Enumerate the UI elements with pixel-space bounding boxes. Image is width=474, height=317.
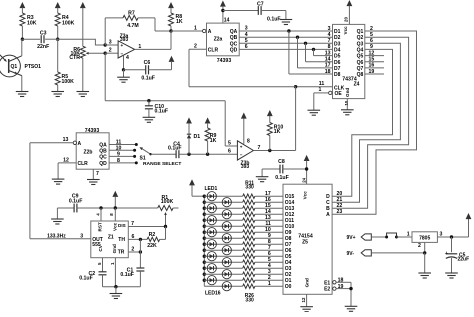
wire Z2a CLR	[189, 48, 207, 50]
74374 pin10 ground	[346, 99, 348, 110]
power VCC arrow (R6 top)	[80, 2, 86, 8]
svg-text:RANGE SELECT: RANGE SELECT	[143, 161, 181, 167]
svg-text:A: A	[208, 29, 212, 35]
svg-text:0.1uF: 0.1uF	[79, 276, 93, 282]
wire 555 OUT 133.3Hz	[30, 238, 91, 240]
74154 E1 bubble	[333, 281, 336, 284]
svg-text:S1: S1	[140, 156, 146, 162]
LED4	[203, 213, 206, 216]
LED13	[203, 267, 206, 270]
svg-text:Gnd: Gnd	[345, 88, 350, 97]
svg-text:OE: OE	[335, 91, 343, 97]
node C5 junction	[450, 235, 453, 238]
S1 contact 3	[133, 155, 136, 158]
wire 555 TH	[128, 238, 147, 240]
resistor R24 330	[243, 272, 255, 276]
node D4 tap	[312, 48, 315, 51]
svg-text:Q7: Q7	[357, 66, 364, 72]
node rail/ground	[114, 285, 117, 288]
svg-text:DIS: DIS	[118, 223, 126, 228]
svg-text:1: 1	[319, 87, 322, 93]
resistor R20 330	[243, 248, 255, 252]
svg-text:PTSO1: PTSO1	[25, 64, 42, 70]
resistor R17 330	[243, 230, 255, 234]
svg-text:3: 3	[109, 40, 112, 46]
node D3 tap	[304, 42, 307, 45]
power VCC arrow (Z2a pin14)	[220, 1, 226, 7]
svg-text:QC: QC	[99, 155, 107, 161]
svg-text:100K: 100K	[62, 79, 75, 85]
node DIS junction	[164, 225, 167, 228]
svg-text:O0: O0	[285, 284, 292, 290]
svg-text:Q1: Q1	[10, 64, 17, 70]
wire 7805 out	[437, 236, 468, 238]
op-amp Z3b 393	[237, 141, 253, 160]
svg-text:3: 3	[80, 233, 83, 239]
wire 555 pin8	[114, 208, 116, 221]
wire D4 to D5	[313, 49, 315, 55]
wire Z2b QD to S1 contact	[109, 162, 136, 164]
wire Z2a QA to 74374 D1	[239, 30, 332, 32]
node C8/VCC junction	[305, 167, 308, 170]
svg-text:22uF: 22uF	[458, 257, 470, 263]
svg-text:10: 10	[344, 100, 349, 105]
switch S2	[385, 236, 388, 239]
svg-text:Z5: Z5	[302, 240, 308, 246]
node R9 junction	[206, 153, 209, 156]
node R3/C3/Q1 junction	[21, 38, 24, 41]
wire Z3a output	[135, 48, 171, 50]
wire Z2b CLR to ground	[58, 162, 76, 164]
svg-text:D6: D6	[334, 60, 341, 66]
svg-text:24: 24	[301, 177, 306, 182]
svg-text:2: 2	[370, 26, 373, 32]
svg-text:19: 19	[338, 284, 344, 290]
wire E1/E2 to ground	[336, 281, 351, 283]
node D1 junction	[187, 153, 190, 156]
svg-text:QD: QD	[230, 47, 238, 53]
switch S1 wiper	[141, 148, 151, 154]
wire 74374 Q1 to 74154 A	[332, 31, 416, 214]
node pin8 junction	[114, 206, 117, 209]
node R4/C3/R5 junction	[56, 38, 59, 41]
74154 E2 bubble	[333, 287, 336, 290]
node Z3a pin3	[104, 43, 107, 46]
wire to Z2a A input	[171, 30, 203, 32]
LED3	[203, 207, 206, 210]
wire 555 CV	[102, 258, 104, 272]
svg-text:0.1uF: 0.1uF	[69, 199, 83, 205]
svg-text:330: 330	[245, 185, 254, 191]
svg-text:D5: D5	[334, 54, 341, 60]
svg-text:20: 20	[343, 17, 348, 22]
node D1 tap	[287, 29, 290, 32]
svg-text:7: 7	[328, 38, 331, 44]
resistor R22 330	[243, 260, 255, 264]
svg-text:Vcc: Vcc	[343, 26, 348, 35]
svg-text:8: 8	[247, 139, 250, 145]
ground (C10)	[143, 116, 156, 118]
wire 7805 pin2	[424, 242, 426, 253]
svg-text:D2: D2	[334, 35, 341, 41]
resistor R10 1K	[267, 123, 272, 136]
resistor R12 330	[243, 200, 255, 204]
svg-text:10K: 10K	[27, 20, 37, 26]
regulator 7805	[412, 232, 437, 243]
svg-text:0.1uF: 0.1uF	[141, 75, 155, 81]
svg-text:Gnd: Gnd	[112, 244, 117, 253]
wire 555 pin4	[100, 208, 102, 221]
power VCC arrow (supply out)	[466, 213, 472, 219]
svg-text:Z2b: Z2b	[84, 150, 93, 156]
ground (C7)	[285, 11, 287, 20]
svg-text:5: 5	[228, 141, 231, 147]
node C10 junction	[147, 99, 150, 102]
wire 74374 Q6 stub	[365, 61, 384, 63]
svg-text:1: 1	[268, 281, 271, 287]
svg-text:Z2a: Z2a	[214, 37, 223, 43]
wire 74374 Q3 to 74154 C	[332, 43, 400, 202]
capacitor C10 0.1uF	[148, 101, 150, 106]
svg-text:9: 9	[117, 152, 120, 158]
svg-text:D7: D7	[334, 66, 341, 72]
svg-text:9V+: 9V+	[347, 235, 356, 241]
svg-text:7: 7	[131, 221, 134, 227]
LED10	[203, 249, 206, 252]
wire pin2 stub	[105, 52, 118, 54]
resistor R4 100K	[55, 13, 60, 26]
capacitor C1 0.1uF	[136, 267, 144, 269]
capacitor C9 0.1uF	[57, 207, 74, 209]
Z2b pin7 ground	[92, 169, 94, 179]
svg-text:Z1: Z1	[108, 234, 114, 240]
svg-text:6: 6	[245, 44, 248, 50]
svg-text:6: 6	[228, 149, 231, 155]
ground (Q1)	[16, 91, 29, 93]
wire Z2b QB to S1 contact	[109, 149, 135, 151]
wire Q1 collector	[21, 39, 23, 56]
ground (C8)	[261, 169, 263, 177]
ground (Z2b CLR)	[52, 178, 65, 180]
svg-text:393: 393	[120, 37, 129, 43]
node pin4 junction	[99, 206, 102, 209]
capacitor C7 0.1uF	[223, 10, 258, 12]
resistor R16 330	[243, 224, 255, 228]
ground (Z3a pin4)	[123, 70, 125, 77]
ground (555)	[115, 287, 117, 294]
svg-text:22nF: 22nF	[37, 44, 49, 50]
timer Z1 555	[91, 221, 129, 258]
resistor R21 330	[243, 254, 255, 258]
svg-text:Q3: Q3	[357, 41, 364, 47]
resistor R11 330	[243, 194, 255, 198]
svg-text:D1: D1	[334, 29, 341, 35]
svg-text:C8: C8	[278, 159, 285, 165]
wire 9V- rail	[371, 252, 424, 254]
wire R4 to node	[57, 26, 59, 39]
svg-text:16: 16	[369, 63, 375, 69]
wire D1 to D8	[288, 31, 290, 74]
svg-text:12: 12	[301, 297, 306, 302]
svg-text:Q8: Q8	[357, 72, 364, 78]
power VCC arrow (74374 pin20)	[347, 0, 353, 6]
LED15	[203, 279, 206, 282]
wire 74374 Q4 to 74154 D	[332, 49, 392, 196]
wire R3 to node	[21, 26, 23, 39]
node D2 tap	[296, 36, 299, 39]
LED14	[203, 273, 206, 276]
power VCC arrow (74154 pin24)	[304, 155, 310, 161]
svg-text:10: 10	[116, 146, 122, 152]
svg-text:D1: D1	[194, 134, 201, 140]
svg-text:D3: D3	[334, 41, 341, 47]
wire bottom rail	[103, 286, 141, 288]
wire Z3b output	[253, 150, 295, 152]
svg-text:1: 1	[138, 44, 141, 50]
svg-text:LED16: LED16	[205, 291, 221, 297]
svg-text:2: 2	[109, 48, 112, 54]
wire D2 to D7	[297, 37, 299, 68]
svg-text:+: +	[240, 144, 243, 149]
wire D3 to D6	[305, 43, 307, 62]
resistor R9 1K	[205, 128, 210, 141]
svg-text:9V-: 9V-	[347, 251, 355, 257]
svg-text:A: A	[326, 212, 330, 218]
LED11	[203, 255, 206, 258]
svg-text:CV: CV	[98, 244, 103, 251]
node CLK junction	[294, 85, 297, 88]
svg-text:0.1uF: 0.1uF	[267, 17, 281, 23]
node 9V- junction	[423, 251, 426, 254]
svg-text:Vcc: Vcc	[303, 191, 308, 200]
node TH junction	[139, 238, 142, 241]
svg-text:QA: QA	[230, 29, 238, 35]
power VCC arrow (555)	[112, 191, 118, 197]
node pin4/C6	[122, 68, 125, 71]
ground (OE)	[308, 109, 321, 111]
svg-text:0.1uF: 0.1uF	[120, 272, 134, 278]
resistor R7 4.7M feedback	[104, 18, 106, 45]
svg-text:C6: C6	[144, 60, 151, 66]
svg-text:0.1uF: 0.1uF	[168, 146, 182, 152]
resistor R19 330	[243, 242, 255, 246]
LED8	[203, 237, 206, 240]
wire Z3a pin4 to ground	[123, 55, 125, 69]
S1 contact 1	[135, 143, 138, 146]
svg-text:7: 7	[257, 145, 260, 151]
svg-text:330: 330	[245, 297, 254, 303]
svg-text:CLR: CLR	[208, 47, 219, 53]
wire Z2a QC to 74374 D3	[239, 42, 332, 44]
wire 74374 Q7 stub	[365, 67, 384, 69]
svg-text:100K: 100K	[161, 199, 174, 205]
svg-text:2: 2	[194, 44, 197, 50]
connector 9V-	[361, 250, 371, 256]
LED6	[203, 225, 206, 228]
svg-text:8: 8	[328, 44, 331, 50]
diode D1	[186, 117, 192, 123]
resistor R8 1K	[169, 13, 174, 26]
svg-text:14: 14	[325, 57, 331, 63]
R1 wiper	[165, 214, 167, 227]
wire 74374 Q8 stub	[365, 73, 384, 75]
svg-text:6: 6	[132, 234, 135, 240]
capacitor C2 0.1uF	[99, 271, 107, 273]
svg-text:2: 2	[131, 246, 134, 252]
decoder Z5 74154	[283, 184, 332, 294]
Z2a pin14 VCC	[222, 11, 224, 24]
svg-text:2: 2	[418, 243, 421, 249]
svg-text:LED1: LED1	[205, 186, 218, 192]
wire 555 OUT to Z2b A	[30, 142, 73, 144]
svg-text:74393: 74393	[217, 58, 232, 64]
resistor R26 330	[243, 284, 255, 288]
node Z3a pin2	[104, 52, 107, 55]
wire R6 to ground	[82, 58, 84, 91]
LED2	[203, 201, 206, 204]
LED16	[204, 285, 242, 287]
resistor R13 330	[243, 206, 255, 210]
svg-text:RST: RST	[98, 222, 103, 231]
svg-text:CLR: CLR	[78, 161, 89, 167]
svg-text:TH: TH	[118, 237, 125, 243]
wire LED supply bus	[203, 196, 205, 286]
node E2 junction	[349, 287, 352, 290]
R6 wiper	[87, 52, 105, 54]
wire CLK to Z3b out	[295, 87, 297, 151]
wire threshold node	[104, 53, 106, 100]
capacitor C8 0.1uF	[262, 168, 280, 170]
svg-text:100K: 100K	[62, 20, 75, 26]
svg-text:Q2: Q2	[357, 35, 364, 41]
resistor R2 22K	[147, 237, 160, 241]
wire 74374 Q5 stub	[365, 55, 384, 57]
Z2b A bubble	[73, 141, 76, 144]
wire 555 TR	[128, 251, 140, 253]
svg-text:Q1: Q1	[357, 29, 364, 35]
capacitor C6 0.1uF	[124, 69, 146, 71]
potentiometer R6 10K CTR	[80, 46, 85, 58]
wire CLK to Z2a CLR	[189, 86, 296, 88]
svg-text:19: 19	[369, 69, 375, 75]
svg-text:18: 18	[325, 69, 331, 75]
svg-text:QB: QB	[230, 35, 238, 41]
svg-text:E1: E1	[324, 280, 330, 286]
svg-text:Z4: Z4	[354, 82, 360, 88]
svg-text:12: 12	[369, 50, 375, 56]
S1 contact 4	[135, 161, 138, 164]
phototransistor Q1 PTSO1	[0, 55, 20, 77]
counter Z2a 74393	[207, 23, 240, 56]
Z2a A input bubble	[203, 29, 206, 32]
svg-text:6: 6	[370, 38, 373, 44]
power VCC arrow (R9)	[205, 117, 211, 123]
capacitor C4 0.1uF	[175, 150, 177, 158]
svg-text:+: +	[121, 43, 124, 48]
svg-text:3: 3	[440, 231, 443, 237]
wire to ground	[424, 253, 426, 273]
svg-text:CTR: CTR	[69, 55, 80, 61]
wire 74374 Q2 to 74154 B	[332, 37, 409, 208]
svg-text:3: 3	[245, 26, 248, 32]
svg-text:1K: 1K	[176, 19, 183, 25]
wire S1 to C4	[151, 153, 177, 155]
power VCC arrow (R4 top)	[55, 2, 61, 8]
wire Z2b QA to S1 contact	[109, 144, 136, 146]
svg-text:0.1uF: 0.1uF	[275, 175, 289, 181]
power VCC arrow (C6)	[169, 56, 175, 62]
resistor R3 10K	[20, 13, 25, 26]
svg-text:TR: TR	[118, 250, 125, 256]
resistor R23 330	[243, 266, 255, 270]
wire Z2a QB to 74374 D2	[239, 36, 332, 38]
node R10 junction	[268, 149, 271, 152]
svg-text:D4: D4	[334, 47, 341, 53]
svg-text:R2: R2	[149, 232, 156, 238]
resistor R25 330	[243, 278, 255, 282]
svg-text:3: 3	[328, 26, 331, 32]
svg-text:C3: C3	[40, 31, 47, 37]
svg-text:13: 13	[63, 137, 69, 143]
svg-text:14: 14	[224, 17, 230, 23]
svg-text:1K: 1K	[210, 138, 217, 144]
ground (R5)	[51, 91, 64, 93]
wire to VCC arrow	[468, 219, 470, 237]
LED1	[203, 195, 206, 198]
svg-text:18: 18	[338, 277, 344, 283]
svg-text:1: 1	[407, 231, 410, 237]
power VCC arrow (R3 top)	[20, 2, 26, 8]
potentiometer R1 100K	[158, 206, 173, 211]
svg-text:15: 15	[369, 57, 375, 63]
svg-text:Vcc: Vcc	[112, 222, 117, 231]
svg-text:5: 5	[245, 38, 248, 44]
wire 9V+ to switch	[371, 236, 386, 238]
op-amp Z3a 393	[118, 41, 135, 58]
connector 9V+	[361, 234, 371, 240]
node TR junction	[139, 250, 142, 253]
ground (7805)	[418, 272, 431, 274]
svg-text:0.1uF: 0.1uF	[155, 109, 169, 115]
svg-text:QB: QB	[99, 148, 107, 154]
wire pin3 stub	[105, 44, 118, 46]
wire 555 DIS	[128, 226, 165, 228]
resistor R5 100K	[57, 39, 59, 72]
S1 contact 2	[133, 149, 136, 152]
ground (C5)	[445, 272, 458, 274]
svg-text:4: 4	[328, 32, 331, 38]
wire OE to ground	[314, 92, 329, 94]
svg-text:11: 11	[319, 81, 325, 87]
svg-text:−: −	[240, 153, 243, 158]
wire TH to C1	[139, 239, 141, 268]
LED5	[203, 219, 206, 222]
resistor R18 330	[243, 236, 255, 240]
svg-text:7: 7	[96, 171, 99, 177]
svg-text:5: 5	[370, 32, 373, 38]
svg-text:8: 8	[117, 158, 120, 164]
svg-text:74154: 74154	[298, 233, 313, 239]
wire switch to 7805	[397, 236, 413, 238]
wire Z2a QD to 74374 D4	[239, 48, 332, 50]
svg-text:22K: 22K	[147, 243, 157, 249]
svg-text:7805: 7805	[419, 235, 430, 241]
svg-text:13: 13	[325, 50, 331, 56]
svg-text:17: 17	[325, 63, 331, 69]
power VCC arrow (R8 top)	[168, 2, 174, 8]
svg-text:Gnd: Gnd	[304, 278, 309, 287]
svg-text:E2: E2	[324, 287, 330, 293]
